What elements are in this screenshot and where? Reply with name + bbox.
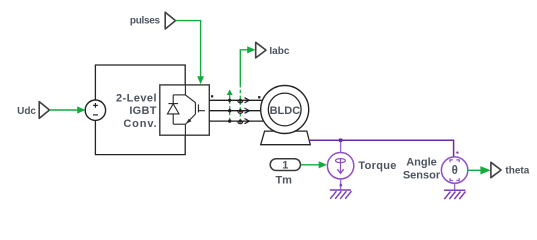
junction dot tap C — [228, 119, 231, 122]
ground mechanical reference (torque) — [330, 190, 352, 199]
wire torque source to ground — [340, 179, 342, 190]
svg-text:2-Level: 2-Level — [116, 92, 157, 104]
svg-text:1: 1 — [282, 159, 288, 171]
svg-text:θ: θ — [452, 165, 458, 177]
label Angle Sensor — [403, 157, 441, 182]
ground mechanical reference (angle) — [444, 190, 466, 199]
converter block 2-Level IGBT Conv. — [160, 85, 210, 135]
wire Udc to source — [50, 106, 86, 113]
angle sensor — [441, 157, 467, 183]
svg-text:Udc: Udc — [17, 106, 36, 117]
shaft line (mechanical) — [309, 139, 454, 141]
svg-text:Conv.: Conv. — [123, 118, 157, 130]
junction dot hop A — [239, 99, 242, 102]
BLDC machine body — [261, 86, 309, 134]
wire phase C — [209, 120, 263, 122]
junction dot hop C — [239, 120, 242, 123]
DC voltage source V — [85, 100, 105, 120]
input port pulses — [130, 12, 176, 29]
BLDC machine pedestal — [261, 131, 311, 145]
svg-text:IGBT: IGBT — [129, 105, 156, 117]
junction dot tap B — [228, 109, 231, 112]
svg-text:Sensor: Sensor — [403, 170, 441, 182]
svg-text:Torque: Torque — [358, 160, 396, 172]
junction dot tap A — [228, 99, 231, 102]
wire shaft to torque source — [340, 142, 342, 153]
svg-text:Tm: Tm — [275, 174, 292, 186]
junction dot torque ground — [340, 184, 343, 187]
wire angle sensor to theta port — [468, 166, 491, 174]
svg-text:pulses: pulses — [130, 16, 161, 27]
svg-text:Angle: Angle — [406, 157, 437, 169]
junction square shaft/torque — [339, 139, 342, 142]
wire phase B — [209, 110, 261, 112]
wire DC bus bottom rail — [95, 120, 185, 154]
svg-text:theta: theta — [505, 166, 529, 177]
input port Udc — [17, 102, 49, 119]
green measurement tap arrow — [227, 90, 233, 122]
svg-text:Iabc: Iabc — [269, 46, 289, 57]
constant block 1 — [270, 159, 300, 172]
label 2-Level IGBT Conv. — [116, 92, 157, 130]
green wire Iabc measurement — [240, 46, 255, 121]
wire hop A — [238, 100, 243, 103]
wire DC bus top rail — [95, 65, 185, 100]
arrowhead phase B — [245, 108, 250, 113]
wire hop C — [238, 121, 243, 124]
wire hop B — [238, 111, 243, 114]
junction dot hop B — [239, 109, 242, 112]
torque source T — [327, 153, 353, 179]
port marker dot angle sensor — [456, 151, 458, 153]
port marker dot converter A — [211, 95, 213, 97]
wire Tm to torque source — [301, 161, 327, 168]
svg-text:BLDC: BLDC — [270, 105, 301, 117]
wire shaft corner to angle sensor — [453, 140, 455, 158]
port marker dot motor A — [258, 96, 260, 98]
wire angle sensor to ground — [454, 183, 456, 190]
wire phase A — [209, 99, 263, 101]
diode D1 — [167, 104, 179, 114]
output port Iabc — [256, 42, 290, 58]
IGBT Q1 — [185, 95, 205, 124]
arrowhead phase A — [245, 98, 250, 103]
output port theta — [491, 162, 530, 177]
arrowhead phase C — [245, 119, 250, 124]
converter icon wires — [173, 85, 185, 135]
wire pulses to converter — [176, 21, 205, 85]
